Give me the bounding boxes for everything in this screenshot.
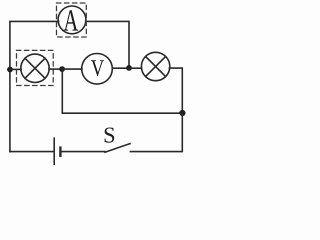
lamp L2	[141, 52, 169, 80]
wire top left	[10, 21, 59, 69]
wire battery to bottom left corner	[10, 151, 53, 153]
battery short plate	[59, 148, 61, 156]
wire voltmeter to node C	[112, 67, 129, 69]
switch S blade	[105, 144, 130, 153]
ammeter A	[58, 6, 86, 34]
wire mid vertical from node B	[62, 69, 182, 113]
battery long plate	[53, 138, 55, 164]
node D	[179, 110, 185, 116]
wire node C to lamp L2	[129, 67, 142, 69]
wire top right	[86, 21, 129, 66]
label V	[91, 60, 104, 76]
label A	[64, 10, 79, 30]
wire lamp L1 to node B	[49, 68, 62, 70]
dashed box around lamp L1	[17, 50, 54, 85]
node C	[126, 65, 132, 71]
voltmeter V	[82, 54, 113, 85]
wire left vertical	[9, 69, 11, 151]
dashed box around ammeter	[57, 3, 87, 37]
wire right vertical lower	[130, 113, 182, 152]
wire node B to voltmeter	[62, 68, 82, 70]
node at left junction	[7, 67, 13, 73]
lamp L1	[21, 54, 49, 82]
node B	[59, 66, 65, 72]
wire node to lamp L1	[10, 68, 21, 70]
wire switch to battery	[62, 151, 105, 153]
wire lamp L2 to right vertical	[169, 68, 182, 113]
label S	[105, 128, 115, 143]
